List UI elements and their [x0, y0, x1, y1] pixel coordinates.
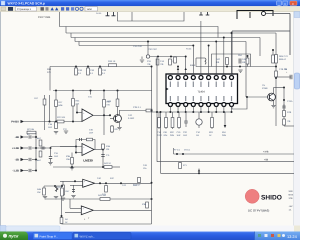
svg-text:P3B: P3B: [142, 203, 147, 206]
svg-text:B3B: B3B: [59, 104, 64, 107]
svg-text:27K: 27K: [47, 71, 51, 74]
svg-text:C74A: C74A: [287, 100, 293, 103]
svg-text:P4 05: P4 05: [96, 12, 102, 15]
svg-text:P32 CB7: P32 CB7: [148, 48, 158, 51]
svg-text:27PF: 27PF: [157, 134, 163, 137]
svg-text:Paint Shop P...: Paint Shop P...: [40, 234, 59, 238]
svg-text:NOE: NOE: [289, 194, 294, 197]
svg-text:T1404: T1404: [197, 90, 205, 93]
svg-text:R1B: R1B: [106, 145, 111, 148]
svg-text:12.: 12.: [289, 209, 292, 212]
svg-text:SHIDO: SHIDO: [261, 195, 282, 202]
svg-text:1MF: 1MF: [54, 155, 59, 158]
svg-text:R4B: R4B: [37, 188, 42, 191]
svg-text:13:24: 13:24: [287, 234, 298, 239]
svg-text:x: x: [292, 2, 294, 6]
svg-text:1M: 1M: [196, 134, 199, 137]
svg-text:1MF: 1MF: [48, 126, 53, 129]
svg-text:R37 10K: R37 10K: [57, 116, 66, 119]
svg-text:-3B: -3B: [15, 136, 19, 139]
svg-text:+1.2B: +1.2B: [12, 147, 19, 150]
svg-text:-1.2B: -1.2B: [13, 170, 19, 173]
svg-text:CJIY-Y041: CJIY-Y041: [38, 16, 51, 19]
svg-text:R43 10: R43 10: [104, 162, 112, 165]
svg-text:0.1MF: 0.1MF: [128, 117, 135, 120]
svg-text:пуск: пуск: [9, 234, 20, 239]
svg-text:C1B: C1B: [48, 123, 53, 126]
svg-text:+3?B: +3?B: [263, 150, 269, 153]
svg-text:Страница 1: Страница 1: [17, 8, 31, 11]
svg-text:C9 0.1: C9 0.1: [184, 149, 191, 152]
svg-text:JIB: JIB: [216, 61, 220, 64]
svg-text:2PB: 2PB: [170, 134, 175, 137]
svg-text:10K: 10K: [37, 191, 41, 194]
svg-text:R43 180: R43 180: [98, 194, 107, 197]
svg-text:P7B 0.1: P7B 0.1: [133, 106, 142, 109]
svg-text:P406: P406: [190, 64, 196, 67]
svg-text:1MF: 1MF: [183, 134, 188, 137]
svg-text:/BM nF: /BM nF: [279, 58, 287, 61]
svg-text:+5V: +5V: [289, 205, 293, 208]
svg-text:JIB: JIB: [242, 61, 246, 64]
svg-text:R7B: R7B: [287, 111, 292, 114]
svg-text:1MF: 1MF: [89, 132, 94, 135]
svg-text:R06 C74: R06 C74: [279, 55, 288, 58]
svg-text:1MF: 1MF: [177, 134, 182, 137]
svg-text:/7B: /7B: [287, 120, 291, 123]
svg-text:P7 0.1: P7 0.1: [174, 149, 181, 152]
svg-text:/7B: /7B: [147, 63, 151, 66]
svg-text:+5B: +5B: [264, 158, 269, 161]
svg-text:10B: 10B: [66, 158, 70, 161]
svg-text:R33 1K: R33 1K: [108, 60, 116, 63]
svg-text:WXYZ-X41.PCAD SCH.p: WXYZ-X41.PCAD SCH.p: [8, 2, 46, 6]
svg-text:P3B: P3B: [66, 155, 71, 158]
svg-text:C31 /100: C31 /100: [133, 45, 143, 48]
svg-text:P4-BX: P4-BX: [11, 121, 19, 124]
svg-text:P4 05: P4 05: [186, 48, 192, 51]
svg-text:WXYZ sch...: WXYZ sch...: [80, 234, 96, 238]
svg-text:-3B: -3B: [15, 159, 19, 162]
svg-text:/PM: /PM: [164, 134, 168, 137]
svg-text:3TB: 3TB: [289, 197, 294, 200]
svg-text:R27 6B: R27 6B: [27, 128, 35, 131]
svg-text:табл: табл: [87, 8, 93, 11]
svg-text:27K: 27K: [76, 103, 80, 106]
svg-text:2PB: 2PB: [222, 134, 227, 137]
svg-text:□: □: [284, 2, 286, 6]
svg-text:/CMB: /CMB: [262, 87, 268, 90]
svg-text:LM339: LM339: [83, 159, 93, 163]
svg-text:SWI: SWI: [289, 190, 294, 193]
svg-text:DC OTPVT(BA3): DC OTPVT(BA3): [248, 209, 269, 213]
svg-text:/7B: /7B: [160, 63, 164, 66]
svg-text:C4 1MF: C4 1MF: [133, 184, 141, 187]
